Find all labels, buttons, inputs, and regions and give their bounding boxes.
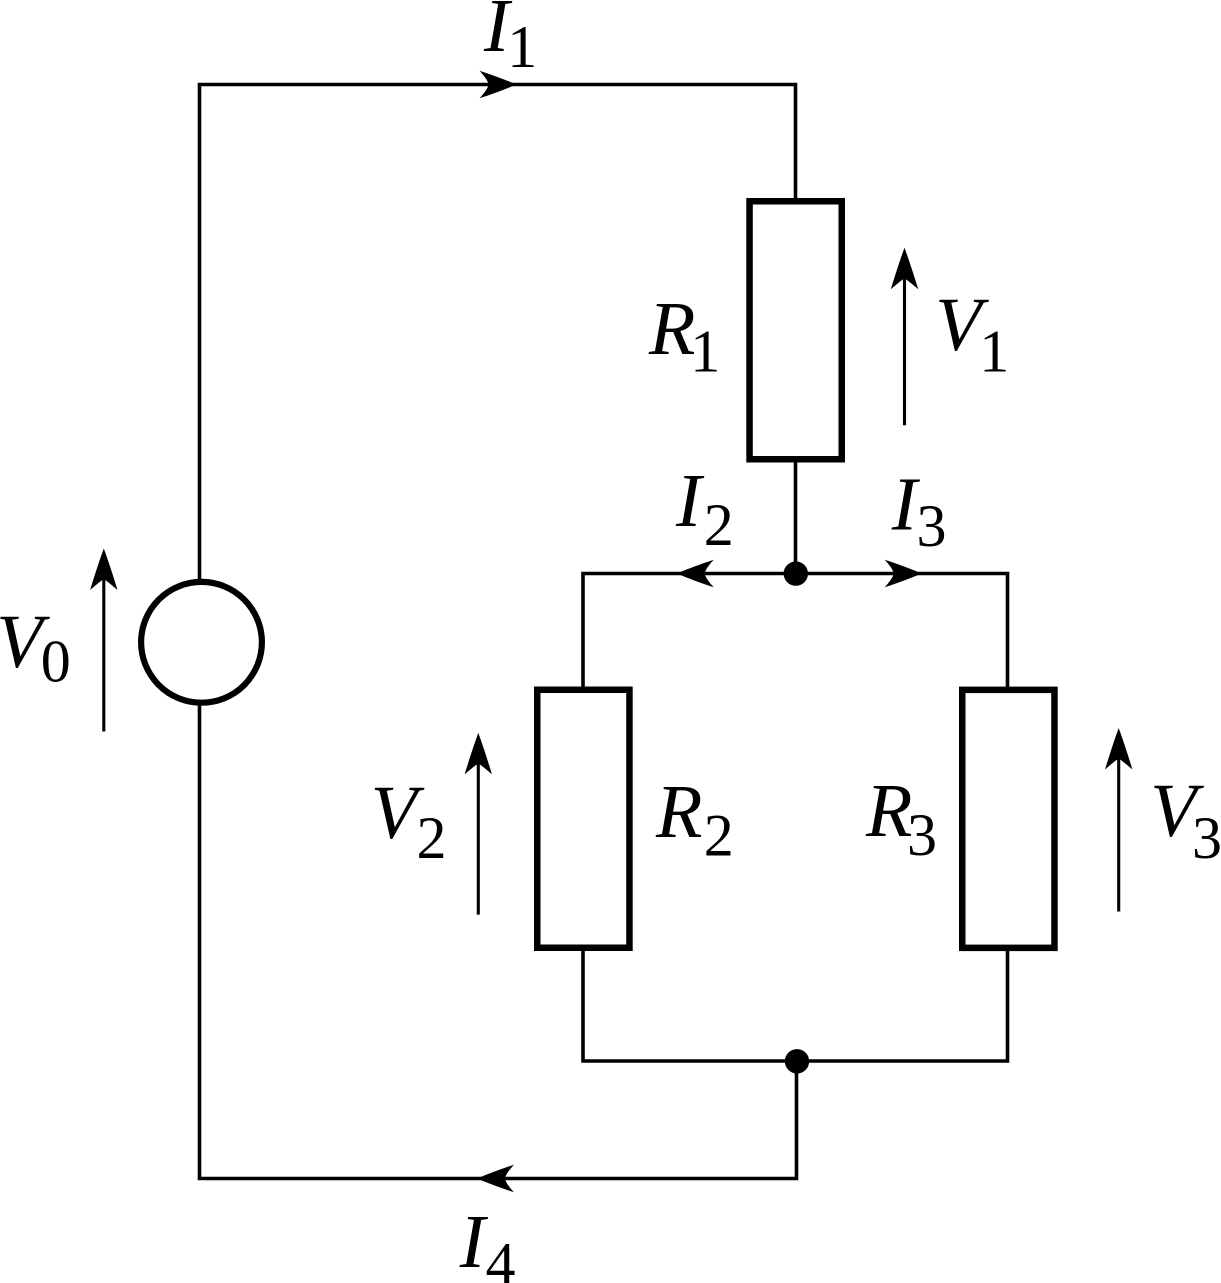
svg-text:1: 1 [690, 319, 720, 385]
arrowhead I2 (current into left branch) [677, 560, 714, 588]
arrowhead I3 (current into right branch) [885, 560, 922, 588]
wire: junction rail from R2 branch across node to R3 branch [583, 574, 1008, 693]
label V1 [935, 283, 1009, 385]
label R1 [648, 287, 720, 385]
svg-text:0: 0 [41, 629, 71, 695]
label V3 [1150, 769, 1221, 871]
wire: R1 bottom to top junction node [794, 456, 798, 574]
svg-text:1: 1 [507, 14, 537, 80]
svg-text:3: 3 [1192, 805, 1221, 871]
label I4 [459, 1200, 516, 1283]
arrowhead I4 (return current on bottom rail) [477, 1165, 514, 1193]
label R2 [655, 770, 734, 869]
svg-text:R: R [865, 769, 912, 853]
V3 voltage arrow [1105, 728, 1132, 912]
svg-text:I: I [675, 459, 705, 543]
label R3 [865, 769, 937, 868]
svg-text:R: R [655, 770, 702, 854]
arrowhead I1 (current direction on top rail) [480, 71, 517, 99]
svg-text:3: 3 [907, 802, 937, 868]
svg-text:2: 2 [704, 803, 734, 869]
V0 voltage arrow [90, 549, 117, 732]
wire: bottom node down and return to source [200, 702, 797, 1179]
svg-text:2: 2 [704, 492, 734, 558]
label I2 [675, 459, 734, 558]
resistor R3 body [962, 690, 1054, 948]
label I3 [891, 463, 947, 560]
svg-text:1: 1 [979, 319, 1009, 385]
label V0 [0, 600, 71, 695]
label V2 [371, 771, 447, 871]
resistor R1 body [750, 201, 842, 459]
wire: bottom rail joining R2 and R3 bottoms [583, 945, 1008, 1061]
svg-text:I: I [459, 1200, 489, 1283]
svg-text:R: R [648, 287, 695, 371]
svg-text:3: 3 [917, 493, 947, 559]
resistor R2 body [537, 690, 629, 948]
voltage source V0 circle [141, 582, 262, 703]
node: bottom junction dot [785, 1049, 809, 1073]
svg-text:2: 2 [417, 805, 447, 871]
svg-text:4: 4 [486, 1230, 516, 1283]
V2 voltage arrow [465, 733, 492, 915]
V1 voltage arrow [891, 248, 918, 426]
node: top junction dot [784, 561, 808, 585]
label I1 [483, 0, 537, 80]
wire: left loop from source top, up, across top rail, down to R1 [200, 85, 796, 583]
